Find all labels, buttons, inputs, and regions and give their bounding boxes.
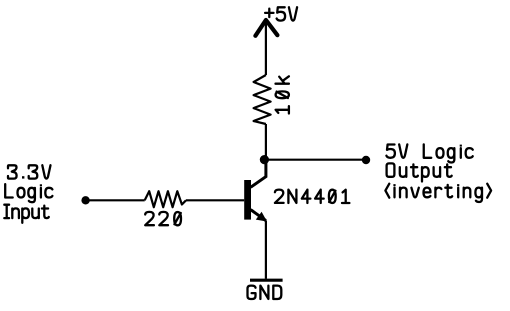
wire output <box>266 159 366 161</box>
label GND <box>248 286 282 299</box>
emitter arrowhead <box>256 212 267 222</box>
transistor collector lead <box>251 160 266 188</box>
transistor emitter lead <box>251 210 266 221</box>
label 10k <box>276 76 289 113</box>
label 2N4401 <box>275 190 350 203</box>
wire resistor to node <box>265 124 267 160</box>
resistor R2 220 <box>145 191 186 207</box>
label 220 <box>145 212 181 225</box>
transistor Q1 2N4401 base bar <box>244 180 251 220</box>
label 3.3V Logic Input <box>8 165 51 178</box>
resistor R1 10k <box>254 75 271 124</box>
label 5V Logic Output (inverting) <box>386 144 472 162</box>
wire input to resistor <box>86 199 145 201</box>
output terminal dot <box>362 156 370 164</box>
node collector junction <box>260 155 269 164</box>
input terminal dot <box>81 196 89 204</box>
wire resistor to base <box>186 199 244 201</box>
ground bar <box>250 279 283 282</box>
label +5V <box>265 7 297 20</box>
power +5V arrow <box>255 20 277 36</box>
wire emitter to ground <box>265 221 267 279</box>
wire top vertical <box>265 20 267 75</box>
